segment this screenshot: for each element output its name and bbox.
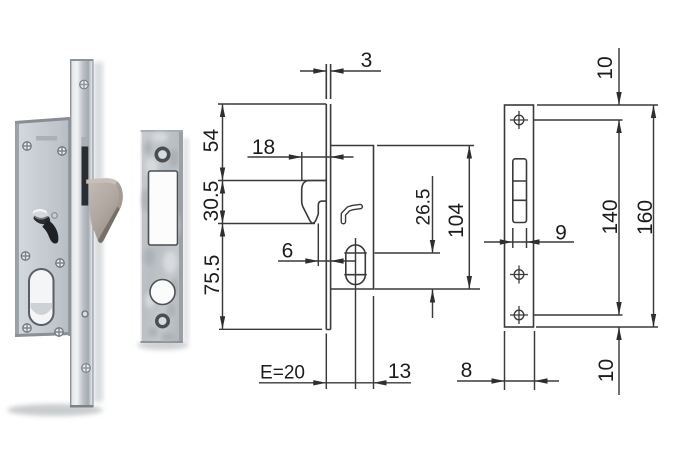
- svg-text:160: 160: [634, 200, 657, 235]
- svg-text:3: 3: [361, 49, 373, 72]
- svg-text:75.5: 75.5: [201, 255, 224, 296]
- svg-text:10: 10: [594, 56, 617, 79]
- svg-text:E=20: E=20: [260, 363, 305, 384]
- svg-text:9: 9: [555, 222, 567, 245]
- svg-text:140: 140: [599, 199, 622, 234]
- svg-text:13: 13: [388, 360, 411, 383]
- svg-text:18: 18: [252, 136, 275, 159]
- svg-text:30.5: 30.5: [200, 181, 223, 222]
- svg-text:10: 10: [595, 359, 618, 382]
- svg-text:26.5: 26.5: [414, 189, 435, 226]
- svg-text:54: 54: [200, 129, 223, 153]
- svg-text:8: 8: [461, 359, 473, 382]
- svg-text:104: 104: [445, 203, 468, 238]
- svg-text:6: 6: [282, 240, 294, 263]
